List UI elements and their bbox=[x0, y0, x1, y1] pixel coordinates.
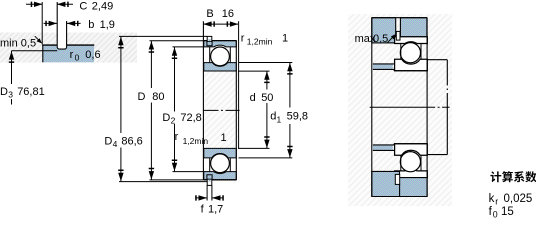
outer ring section (blue) bbox=[42, 45, 94, 63]
snap ring groove slot bottom bbox=[207, 175, 212, 180]
svg-text:B: B bbox=[206, 8, 213, 20]
svg-text:1: 1 bbox=[221, 132, 227, 144]
svg-text:0: 0 bbox=[493, 210, 498, 220]
bearing inner ring bottom (right view) bbox=[395, 144, 428, 156]
svg-text:r: r bbox=[70, 49, 74, 61]
right face line bbox=[235, 41, 237, 180]
svg-text:2: 2 bbox=[171, 116, 176, 126]
dimension D2 72,8 bbox=[174, 47, 176, 112]
housing main block top bbox=[400, 18, 427, 37]
svg-text:d: d bbox=[250, 92, 256, 104]
OD top line bbox=[204, 40, 237, 42]
snap ring lug (right view, bottom) bbox=[395, 174, 399, 184]
svg-text:r: r bbox=[175, 131, 179, 143]
svg-text:0,5: 0,5 bbox=[373, 33, 388, 45]
outer ring top section bbox=[204, 41, 237, 47]
bore surface faint hatch bbox=[204, 72, 239, 149]
dimension B 16 bbox=[203, 23, 238, 25]
heading 计算系数 bbox=[490, 171, 536, 182]
ring top surface line bbox=[42, 44, 94, 46]
bearing outer ring bottom (right view) bbox=[395, 169, 428, 178]
OD bottom line bbox=[204, 179, 237, 181]
centerline (right view) bbox=[370, 106, 428, 108]
svg-text:72,8: 72,8 bbox=[180, 112, 201, 124]
svg-text:59,8: 59,8 bbox=[287, 111, 308, 123]
tangent lines top (right view) bbox=[401, 44, 421, 59]
surrounding faint hatch bbox=[348, 14, 452, 206]
svg-text:d: d bbox=[270, 111, 276, 123]
svg-text:0,025: 0,025 bbox=[504, 193, 533, 205]
svg-text:D: D bbox=[0, 86, 8, 98]
svg-text:86,6: 86,6 bbox=[121, 136, 142, 148]
dimension D3 76,81 bbox=[12, 50, 58, 52]
bearing bore line bottom (right view) bbox=[394, 143, 427, 145]
dimension d 50 bbox=[266, 71, 268, 90]
housing hatch block bbox=[0, 33, 137, 63]
bearing bore line top (right view) bbox=[394, 70, 427, 72]
snap ring groove slot top bbox=[207, 41, 212, 46]
groove left wall / extension line bbox=[57, 2, 66, 49]
snap ring lug bottom bbox=[207, 179, 212, 185]
svg-text:1,9: 1,9 bbox=[100, 19, 115, 31]
dimension C 2,49 bbox=[26, 3, 73, 5]
svg-text:50: 50 bbox=[261, 92, 273, 104]
left face / extension line bbox=[202, 21, 204, 180]
raceway tangent lines bottom bbox=[210, 158, 231, 171]
left boundary line (right view) bbox=[371, 18, 373, 197]
tangent lines bottom (right view) bbox=[401, 155, 421, 170]
svg-text:D: D bbox=[162, 112, 170, 124]
svg-text:15: 15 bbox=[501, 206, 514, 218]
bearing outer ring top (right view) bbox=[395, 37, 428, 44]
snap ring lug (right view, top) bbox=[396, 31, 400, 40]
svg-text:16: 16 bbox=[222, 8, 234, 20]
ball top bbox=[211, 47, 230, 66]
svg-text:r: r bbox=[495, 196, 498, 206]
housing cover block bbox=[372, 18, 396, 43]
housing top edge bbox=[372, 17, 427, 19]
outer ring bottom section bbox=[204, 172, 237, 180]
ball bottom bbox=[211, 154, 230, 173]
svg-text:D: D bbox=[138, 91, 146, 103]
dimension D4 86,6 bbox=[120, 36, 122, 133]
inner ring top section bbox=[204, 63, 237, 71]
dimension d1 59,8 bbox=[289, 63, 291, 108]
ball top (right view) bbox=[400, 43, 420, 63]
dimension b 1,9 bbox=[44, 22, 81, 24]
shaft seat strip top bbox=[373, 64, 393, 70]
right auxiliary extension line bbox=[238, 21, 240, 149]
svg-text:4: 4 bbox=[113, 139, 118, 149]
svg-text:0,6: 0,6 bbox=[85, 49, 100, 61]
centerline main view bbox=[203, 109, 240, 111]
svg-text:3: 3 bbox=[8, 89, 13, 99]
svg-text:k: k bbox=[489, 193, 495, 205]
shaft seat strip bottom bbox=[373, 145, 393, 151]
ball bottom (right view) bbox=[400, 152, 420, 172]
svg-text:1: 1 bbox=[277, 114, 282, 124]
dimension D 80 bbox=[150, 41, 152, 88]
svg-text:80: 80 bbox=[152, 91, 164, 103]
leader max 0,5 bbox=[388, 36, 395, 43]
svg-text:1,2min: 1,2min bbox=[183, 136, 209, 146]
shaft shoulder (right) bbox=[427, 60, 447, 155]
snap ring lug top bbox=[207, 36, 212, 41]
ring left face line bbox=[42, 45, 44, 63]
leader min 0,5 bbox=[35, 36, 41, 42]
svg-text:D: D bbox=[104, 136, 112, 148]
svg-text:b: b bbox=[88, 19, 94, 31]
svg-text:1,2min: 1,2min bbox=[247, 36, 273, 46]
dimension f 1,7 bbox=[207, 185, 212, 200]
housing face line bottom bbox=[399, 184, 401, 196]
svg-text:r: r bbox=[241, 33, 245, 45]
bearing inner ring top (right view) bbox=[395, 59, 428, 70]
svg-text:1,7: 1,7 bbox=[208, 204, 223, 216]
svg-text:1: 1 bbox=[282, 33, 288, 45]
svg-text:2,49: 2,49 bbox=[92, 1, 113, 13]
svg-text:0: 0 bbox=[75, 52, 80, 62]
right boundary line (right view) bbox=[426, 18, 428, 197]
svg-text:min 0,5: min 0,5 bbox=[0, 37, 36, 49]
housing bottom block bbox=[372, 171, 427, 196]
inner ring bottom section bbox=[204, 148, 237, 158]
raceway tangent lines top bbox=[210, 47, 231, 62]
snap ring groove slot bbox=[57, 33, 66, 50]
svg-text:76,81: 76,81 bbox=[17, 86, 45, 98]
svg-text:C: C bbox=[79, 1, 87, 13]
